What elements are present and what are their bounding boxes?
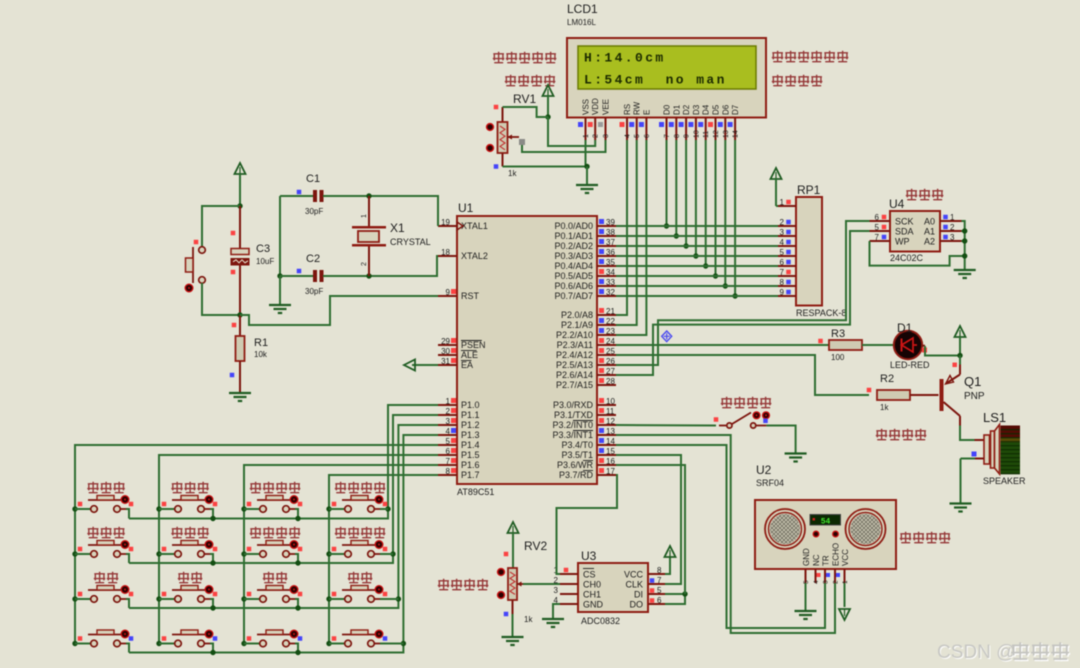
svg-text:P2.6/A14: P2.6/A14 <box>556 370 593 380</box>
svg-text:12: 12 <box>606 417 615 426</box>
svg-text:23: 23 <box>606 327 615 336</box>
svg-text:6: 6 <box>644 134 651 138</box>
svg-text:P0.6/AD6: P0.6/AD6 <box>554 281 593 291</box>
svg-text:4: 4 <box>625 134 632 138</box>
svg-text:3: 3 <box>950 233 955 242</box>
svg-text:4: 4 <box>446 427 451 436</box>
svg-text:U2: U2 <box>756 463 772 477</box>
svg-text:7: 7 <box>875 233 880 242</box>
svg-text:U4: U4 <box>889 197 905 211</box>
svg-text:12: 12 <box>713 130 720 138</box>
svg-text:36: 36 <box>606 248 615 257</box>
svg-text:24: 24 <box>606 337 615 346</box>
svg-text:DO: DO <box>630 600 644 610</box>
svg-text:6: 6 <box>780 258 785 267</box>
svg-text:P1.6: P1.6 <box>461 460 480 470</box>
svg-text:D2: D2 <box>682 104 691 115</box>
svg-text:9: 9 <box>684 134 691 138</box>
svg-text:CSDN @: CSDN @ <box>937 642 1015 663</box>
svg-text:15: 15 <box>606 447 615 456</box>
svg-text:WP: WP <box>895 237 910 247</box>
svg-text:5: 5 <box>657 586 662 595</box>
svg-text:3: 3 <box>554 586 559 595</box>
svg-text:DI: DI <box>634 590 643 600</box>
svg-text:1: 1 <box>780 198 785 207</box>
svg-text:P2.4/A12: P2.4/A12 <box>556 350 593 360</box>
svg-text:R1: R1 <box>254 337 268 349</box>
svg-text:NC: NC <box>812 554 821 566</box>
svg-text:P0.1/AD1: P0.1/AD1 <box>554 231 593 241</box>
svg-text:P3.1/TXD: P3.1/TXD <box>554 410 594 420</box>
svg-text:4: 4 <box>813 580 820 584</box>
svg-text:8: 8 <box>657 566 662 575</box>
svg-text:34: 34 <box>606 268 615 277</box>
svg-text:C3: C3 <box>256 243 270 255</box>
svg-text:18: 18 <box>441 248 450 257</box>
svg-text:P1.0: P1.0 <box>461 400 480 410</box>
svg-text:P1.5: P1.5 <box>461 450 480 460</box>
svg-text:SDA: SDA <box>895 227 914 237</box>
svg-text:CLK: CLK <box>625 580 643 590</box>
svg-text:1: 1 <box>361 214 368 218</box>
svg-text:6: 6 <box>657 596 662 605</box>
svg-text:13: 13 <box>606 427 615 436</box>
svg-text:R2: R2 <box>880 373 894 385</box>
svg-text:P2.2/A10: P2.2/A10 <box>556 330 593 340</box>
svg-text:U3: U3 <box>581 549 597 563</box>
svg-text:X1: X1 <box>390 221 405 235</box>
svg-text:10: 10 <box>693 130 700 138</box>
svg-text:11: 11 <box>703 131 710 138</box>
svg-text:VSS: VSS <box>582 99 591 115</box>
svg-text:1k: 1k <box>880 403 889 412</box>
svg-text:26: 26 <box>606 357 615 366</box>
svg-text:RESPACK-8: RESPACK-8 <box>796 308 846 318</box>
svg-text:19: 19 <box>441 218 450 227</box>
svg-text:P1.7: P1.7 <box>461 470 480 480</box>
svg-text:P2.0/A8: P2.0/A8 <box>561 310 593 320</box>
svg-text:P0.7/AD7: P0.7/AD7 <box>554 291 593 301</box>
svg-text:R3: R3 <box>831 328 845 340</box>
svg-text:1: 1 <box>950 213 955 222</box>
svg-text:9: 9 <box>780 288 785 297</box>
svg-text:37: 37 <box>606 238 615 247</box>
svg-text:11: 11 <box>606 407 615 416</box>
svg-text:P0.3/AD3: P0.3/AD3 <box>554 251 593 261</box>
svg-text:U1: U1 <box>458 201 474 215</box>
svg-text:3: 3 <box>780 228 785 237</box>
svg-text:8: 8 <box>780 278 785 287</box>
svg-text:13: 13 <box>723 130 730 138</box>
svg-text:16: 16 <box>606 457 615 466</box>
svg-text:LS1: LS1 <box>983 410 1006 425</box>
svg-text:SCK: SCK <box>895 217 914 227</box>
svg-text:14: 14 <box>733 130 740 138</box>
svg-text:RV1: RV1 <box>513 92 536 106</box>
svg-text:RW: RW <box>633 101 642 115</box>
svg-text:10uF: 10uF <box>256 257 274 266</box>
svg-text:2: 2 <box>950 223 955 232</box>
svg-text:1: 1 <box>583 134 590 138</box>
svg-text:A2: A2 <box>924 237 935 247</box>
svg-text:D3: D3 <box>692 104 701 115</box>
svg-text:L:54cm no man: L:54cm no man <box>584 73 727 88</box>
svg-text:1k: 1k <box>524 615 533 624</box>
svg-text:PSEN: PSEN <box>461 340 486 350</box>
svg-text:P2.7/A15: P2.7/A15 <box>556 380 593 390</box>
svg-text:3: 3 <box>446 417 451 426</box>
svg-text:24C02C: 24C02C <box>890 253 924 263</box>
svg-text:2: 2 <box>593 134 600 138</box>
svg-text:P3.3/INT1: P3.3/INT1 <box>552 430 593 440</box>
svg-text:10k: 10k <box>254 350 268 359</box>
svg-text:P2.5/A13: P2.5/A13 <box>556 360 593 370</box>
svg-text:P2.3/A11: P2.3/A11 <box>557 340 593 350</box>
svg-text:2: 2 <box>446 407 451 416</box>
svg-text:SPEAKER: SPEAKER <box>983 476 1026 486</box>
svg-text:2: 2 <box>780 218 785 227</box>
svg-text:D1: D1 <box>897 321 913 335</box>
svg-text:D6: D6 <box>721 104 730 115</box>
svg-text:5: 5 <box>780 248 785 257</box>
svg-text:H:14.0cm: H:14.0cm <box>584 51 666 66</box>
svg-text:VCC: VCC <box>841 549 850 566</box>
svg-text:VEE: VEE <box>602 99 611 115</box>
svg-text:RST: RST <box>461 291 480 301</box>
svg-text:5: 5 <box>634 134 641 138</box>
svg-text:4: 4 <box>780 238 785 247</box>
svg-text:35: 35 <box>606 258 615 267</box>
svg-text:2: 2 <box>361 262 368 266</box>
svg-text:30pF: 30pF <box>305 207 323 216</box>
svg-text:5: 5 <box>446 437 451 446</box>
svg-text:D0: D0 <box>663 104 672 115</box>
svg-text:A1: A1 <box>924 227 935 237</box>
svg-text:P1.1: P1.1 <box>461 410 480 420</box>
svg-text:P0.4/AD4: P0.4/AD4 <box>554 261 593 271</box>
svg-text:30pF: 30pF <box>305 287 323 296</box>
svg-text:XTAL2: XTAL2 <box>461 251 488 261</box>
svg-text:C1: C1 <box>306 173 320 185</box>
svg-text:EA: EA <box>461 360 473 370</box>
svg-text:ALE: ALE <box>461 350 478 360</box>
svg-text:P1.4: P1.4 <box>461 440 480 450</box>
svg-text:CH0: CH0 <box>583 580 601 590</box>
svg-text:PNP: PNP <box>964 391 985 402</box>
svg-text:31: 31 <box>441 357 450 366</box>
svg-text:ADC0832: ADC0832 <box>581 616 620 626</box>
svg-text:8: 8 <box>674 134 681 138</box>
svg-text:100: 100 <box>831 353 845 362</box>
svg-text:P0.0/AD0: P0.0/AD0 <box>554 221 593 231</box>
svg-text:P1.2: P1.2 <box>461 420 480 430</box>
svg-text:VDD: VDD <box>591 98 600 115</box>
svg-text:6: 6 <box>875 213 880 222</box>
svg-text:RV2: RV2 <box>524 539 547 553</box>
svg-text:RS: RS <box>623 104 632 115</box>
svg-text:29: 29 <box>441 337 450 346</box>
svg-text:8: 8 <box>446 467 451 476</box>
svg-text:CRYSTAL: CRYSTAL <box>390 237 431 247</box>
svg-text:D7: D7 <box>731 104 740 115</box>
svg-text:33: 33 <box>606 278 615 287</box>
svg-text:AT89C51: AT89C51 <box>457 487 494 497</box>
svg-text:GND: GND <box>802 548 811 566</box>
svg-text:SRF04: SRF04 <box>756 478 784 488</box>
svg-text:VCC: VCC <box>624 570 644 580</box>
svg-text:1k: 1k <box>508 169 517 178</box>
svg-text:ECHO: ECHO <box>832 543 841 566</box>
svg-text:P3.6/WR: P3.6/WR <box>557 460 594 470</box>
svg-text:P3.5/T1: P3.5/T1 <box>561 450 593 460</box>
svg-text:Q1: Q1 <box>964 374 981 389</box>
svg-text:3: 3 <box>603 134 610 138</box>
svg-text:P3.0/RXD: P3.0/RXD <box>553 400 594 410</box>
svg-text:25: 25 <box>606 347 615 356</box>
svg-text:30: 30 <box>441 347 450 356</box>
svg-text:17: 17 <box>606 467 615 476</box>
svg-text:C2: C2 <box>306 253 320 265</box>
svg-text:RP1: RP1 <box>797 183 821 197</box>
svg-text:54: 54 <box>821 518 831 527</box>
svg-text:LED-RED: LED-RED <box>890 360 930 370</box>
svg-text:LM016L: LM016L <box>567 18 596 27</box>
svg-text:P3.2/INT0: P3.2/INT0 <box>552 420 593 430</box>
svg-text:28: 28 <box>606 377 615 386</box>
svg-text:P0.2/AD2: P0.2/AD2 <box>554 241 593 251</box>
svg-text:32: 32 <box>606 288 615 297</box>
svg-text:TR: TR <box>822 555 831 566</box>
svg-text:38: 38 <box>606 228 615 237</box>
svg-text:GND: GND <box>583 600 604 610</box>
svg-text:22: 22 <box>606 317 615 326</box>
svg-text:CS: CS <box>583 570 596 580</box>
svg-text:6: 6 <box>446 447 451 456</box>
svg-text:D1: D1 <box>672 104 681 115</box>
svg-text:P3.7/RD: P3.7/RD <box>559 470 594 480</box>
svg-text:D4: D4 <box>702 104 711 115</box>
svg-text:A0: A0 <box>924 217 935 227</box>
svg-text:21: 21 <box>606 307 615 316</box>
svg-text:D5: D5 <box>712 104 721 115</box>
svg-text:P0.5/AD5: P0.5/AD5 <box>554 271 593 281</box>
svg-text:7: 7 <box>780 268 785 277</box>
svg-text:E: E <box>642 110 651 115</box>
svg-text:XTAL1: XTAL1 <box>461 221 488 231</box>
svg-text:LCD1: LCD1 <box>567 2 598 16</box>
svg-text:CH1: CH1 <box>583 590 601 600</box>
svg-text:5: 5 <box>875 223 880 232</box>
svg-text:P1.3: P1.3 <box>461 430 480 440</box>
svg-text:27: 27 <box>606 367 615 376</box>
svg-text:1: 1 <box>446 397 451 406</box>
svg-text:39: 39 <box>606 218 615 227</box>
svg-text:P2.1/A9: P2.1/A9 <box>561 320 593 330</box>
svg-text:7: 7 <box>657 576 662 585</box>
svg-text:14: 14 <box>606 437 615 446</box>
svg-text:9: 9 <box>446 288 451 297</box>
svg-text:10: 10 <box>606 397 615 406</box>
svg-text:7: 7 <box>664 134 671 138</box>
svg-text:P3.4/T0: P3.4/T0 <box>561 440 593 450</box>
svg-text:7: 7 <box>446 457 451 466</box>
